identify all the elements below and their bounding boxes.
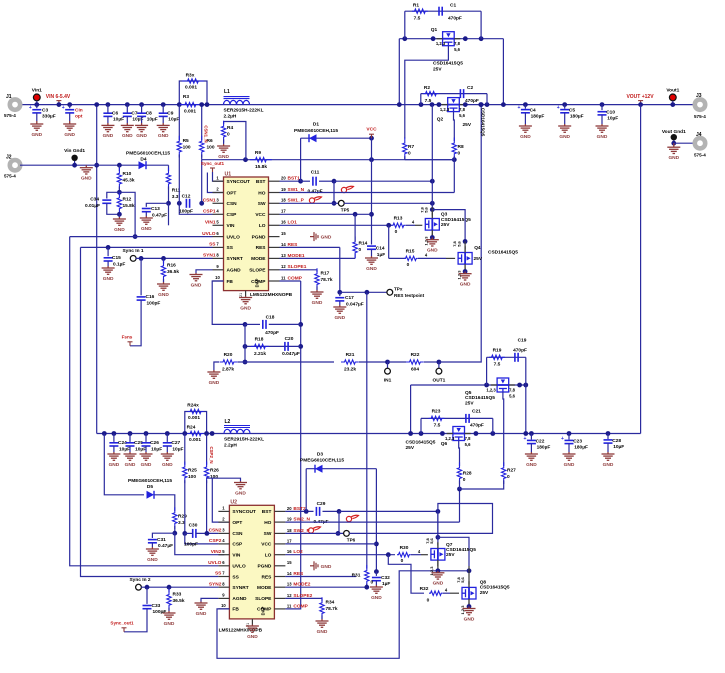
capacitor C5: [562, 102, 567, 107]
svg-text:SLOPE: SLOPE: [249, 268, 266, 274]
U2 DAP pin 21: [251, 619, 253, 625]
svg-text:C2: C2: [467, 85, 473, 91]
svg-text:1,2,3: 1,2,3: [440, 107, 450, 112]
capacitor C29: [316, 507, 319, 516]
svg-text:+: +: [29, 105, 32, 111]
svg-text:C22: C22: [536, 438, 545, 444]
svg-text:R18: R18: [255, 337, 264, 343]
svg-text:C29: C29: [317, 501, 326, 507]
U2 pin 20 BST: [274, 510, 285, 512]
svg-text:GND: GND: [235, 490, 246, 496]
svg-text:SYNRT: SYNRT: [227, 256, 243, 262]
svg-text:C30: C30: [189, 523, 198, 529]
svg-text:7.5: 7.5: [494, 362, 501, 368]
svg-text:10µF: 10µF: [151, 446, 162, 452]
inductor L1: [224, 100, 250, 104]
U1 pin 3 CSN: [213, 202, 224, 204]
ground for Q7: [431, 571, 444, 579]
svg-text:10µF: 10µF: [135, 446, 146, 452]
wire VCC vertical: [371, 138, 373, 244]
svg-text:20: 20: [287, 506, 292, 511]
svg-text:14: 14: [287, 571, 292, 576]
svg-text:+: +: [517, 105, 520, 111]
U2 pin 13 MODE: [274, 586, 285, 588]
resistor R1: [412, 9, 428, 13]
svg-text:GND: GND: [321, 235, 332, 241]
capacitor C30: [193, 529, 196, 538]
resistor R30: [397, 553, 411, 557]
svg-text:MODE: MODE: [251, 256, 266, 262]
capacitor C6: [106, 102, 111, 107]
svg-text:GND: GND: [312, 300, 323, 306]
wire MODE2 row: [285, 586, 366, 588]
svg-text:+: +: [561, 436, 564, 442]
svg-text:CSP: CSP: [227, 212, 238, 218]
svg-text:C9: C9: [167, 111, 173, 117]
test loop SW2_N: [346, 515, 358, 521]
ground for C17: [333, 305, 346, 313]
terminal IN1: [385, 360, 390, 365]
svg-text:GND: GND: [122, 133, 133, 139]
U1 pin 2 OPT: [213, 192, 224, 194]
connector J3: [695, 99, 705, 109]
svg-text:SYNCOUT: SYNCOUT: [227, 179, 251, 185]
wire FB divider to VOUT: [439, 105, 481, 362]
svg-text:25V: 25V: [433, 66, 442, 72]
ground for C31: [146, 547, 159, 555]
svg-text:VIN: VIN: [232, 553, 241, 559]
ground for C10: [596, 124, 609, 132]
svg-text:R2: R2: [424, 85, 430, 91]
svg-text:C27: C27: [171, 440, 180, 446]
svg-text:180µF: 180µF: [531, 114, 545, 120]
svg-text:R21: R21: [346, 352, 355, 358]
net label VCC2 row: [285, 543, 376, 545]
svg-text:3.3: 3.3: [172, 194, 179, 200]
capacitor C31: [152, 533, 174, 538]
wire SYNCOUT pin1: [213, 172, 224, 181]
ground for C22: [525, 452, 538, 460]
svg-text:7,8: 7,8: [425, 537, 430, 543]
wire Q1 row: [399, 38, 503, 40]
svg-text:1,2,3: 1,2,3: [424, 236, 429, 246]
svg-text:SER2915H-222KL: SER2915H-222KL: [224, 108, 264, 114]
wire R2 C2 snubber: [420, 94, 422, 105]
svg-text:21: 21: [239, 293, 243, 297]
svg-text:SW: SW: [264, 531, 272, 537]
resistor R20: [214, 362, 219, 370]
svg-text:100: 100: [188, 474, 196, 480]
ground for R17: [311, 290, 324, 298]
svg-text:VIN: VIN: [227, 223, 236, 229]
wire HO2 drive: [285, 521, 459, 523]
svg-text:C14: C14: [376, 246, 385, 252]
svg-text:GND: GND: [526, 462, 537, 468]
capacitor C27: [165, 431, 170, 436]
ground for C26: [140, 452, 153, 460]
svg-text:C3: C3: [42, 108, 48, 114]
ground for Q3: [426, 238, 439, 247]
svg-text:MODE: MODE: [257, 585, 272, 591]
U2 pin 2 OPT: [218, 521, 229, 523]
svg-text:575-4: 575-4: [4, 174, 16, 179]
svg-text:GND: GND: [125, 462, 136, 468]
transistor Q1: [443, 32, 455, 46]
U2 pin 5 VIN: [218, 554, 229, 556]
svg-text:100pF: 100pF: [153, 609, 167, 615]
svg-text:GND: GND: [371, 595, 382, 601]
wire VIN1 drop: [168, 203, 170, 225]
svg-text:OPT: OPT: [232, 520, 242, 526]
svg-text:15.8k: 15.8k: [255, 164, 267, 170]
svg-text:15.8k: 15.8k: [123, 203, 135, 209]
svg-text:CSD16415Q5: CSD16415Q5: [465, 395, 495, 401]
wire SS shared vertical: [81, 246, 213, 248]
svg-text:C28: C28: [612, 438, 621, 444]
svg-text:UVLO: UVLO: [227, 234, 241, 240]
ground for Q8: [463, 607, 476, 615]
wire SW boot: [334, 180, 432, 182]
svg-text:604: 604: [411, 367, 419, 373]
svg-text:GND: GND: [520, 134, 531, 140]
U2 pin 9 AGND: [218, 597, 229, 599]
svg-text:SYN1: SYN1: [203, 253, 216, 259]
svg-text:CSP: CSP: [232, 542, 243, 548]
ground for C14: [365, 256, 378, 264]
capacitor C9: [161, 102, 166, 107]
wire RES shared vertical: [366, 292, 368, 568]
svg-text:C26: C26: [150, 440, 159, 446]
svg-text:GND: GND: [321, 564, 332, 570]
svg-text:VCC: VCC: [366, 126, 377, 132]
ground for C24: [107, 452, 120, 460]
svg-text:Sync_out1: Sync_out1: [201, 161, 225, 166]
wire RES row: [280, 246, 340, 248]
U1 pin 10 FB: [213, 280, 224, 282]
wire COMP shared vertical: [280, 280, 301, 282]
wire Q2 gate: [453, 112, 456, 141]
svg-text:R24: R24: [187, 425, 196, 431]
ground for R16: [157, 282, 170, 290]
svg-text:36.5k: 36.5k: [173, 598, 185, 604]
svg-text:100: 100: [183, 145, 191, 151]
svg-text:7,8: 7,8: [459, 107, 465, 112]
wire VIN2 rail: [97, 433, 641, 435]
svg-text:R4: R4: [227, 125, 233, 131]
svg-text:SYNRT: SYNRT: [232, 585, 248, 591]
svg-text:GND: GND: [209, 380, 220, 386]
svg-text:Q3: Q3: [441, 212, 448, 218]
wire FB divider row: [245, 361, 334, 363]
U2 pin 11 COMP: [274, 608, 285, 610]
svg-text:GND: GND: [191, 282, 202, 288]
svg-text:RES testpoint: RES testpoint: [394, 293, 425, 298]
ground for C13: [140, 216, 153, 224]
wire RES2 row: [285, 576, 356, 578]
svg-text:C1: C1: [450, 3, 456, 9]
svg-text:C10: C10: [606, 110, 615, 116]
svg-text:PGND: PGND: [252, 234, 266, 240]
wire VCC2 vertical: [375, 469, 377, 572]
svg-text:J1: J1: [6, 94, 12, 100]
transistor Q4: [464, 241, 466, 249]
resistor R12: [117, 192, 121, 214]
svg-text:GND: GND: [141, 462, 152, 468]
svg-text:R23: R23: [432, 409, 441, 415]
U2 pin 19 HO: [274, 521, 285, 523]
svg-text:5,6: 5,6: [454, 47, 460, 52]
wire SW to Q3: [344, 202, 432, 204]
ground for C4: [519, 124, 532, 132]
svg-text:0: 0: [408, 151, 411, 157]
svg-text:RES: RES: [256, 245, 267, 251]
svg-text:Fsns: Fsns: [122, 334, 133, 339]
capacitor C21: [466, 414, 469, 423]
svg-text:R25: R25: [188, 468, 197, 474]
svg-text:R29: R29: [178, 514, 187, 520]
capacitor C2: [460, 89, 463, 98]
svg-text:C11: C11: [311, 170, 320, 176]
wire R5 leg CSP1: [178, 105, 180, 140]
ground for C5: [558, 124, 571, 132]
ground for R20: [207, 370, 220, 378]
resistor R29: [173, 507, 177, 529]
resistor R3: [180, 102, 202, 106]
terminal OUT1: [437, 360, 442, 365]
ground for C3: [30, 121, 43, 130]
ground at Vin Gnd1: [80, 165, 93, 174]
svg-text:Sync_out1: Sync_out1: [110, 620, 134, 625]
test loop SW1_N: [341, 186, 353, 192]
svg-text:25V: 25V: [474, 256, 483, 262]
capacitor C25: [128, 431, 133, 436]
capacitor C34: [107, 192, 120, 198]
svg-text:GND: GND: [81, 176, 92, 182]
wire R23 C21 snubber: [420, 418, 422, 433]
wire Q7 drain link: [438, 537, 469, 566]
svg-text:GND: GND: [668, 155, 679, 161]
svg-text:C32: C32: [381, 575, 390, 581]
wire VIN vertical to phase2: [96, 105, 98, 434]
svg-text:CSD16415Q5: CSD16415Q5: [446, 547, 476, 553]
wire Q1 gate: [405, 46, 449, 139]
svg-text:470pF: 470pF: [265, 330, 279, 336]
resistor R32: [429, 591, 443, 595]
svg-text:J2: J2: [6, 155, 12, 161]
U1 pin 18 SW: [269, 202, 280, 204]
U2 pin 1 SYNCOUT: [218, 510, 229, 512]
svg-text:C4: C4: [530, 108, 536, 114]
wire R7 R8 bottoms: [405, 159, 455, 161]
ground for R4: [217, 144, 230, 152]
svg-text:CSN2: CSN2: [209, 528, 222, 534]
capacitor C12: [186, 199, 189, 208]
ground for C28: [602, 452, 615, 460]
svg-text:25V: 25V: [406, 445, 415, 451]
svg-text:15: 15: [281, 231, 286, 236]
svg-text:Q5: Q5: [465, 390, 472, 396]
svg-text:7,8: 7,8: [452, 240, 457, 246]
svg-text:0.47µF: 0.47µF: [158, 543, 173, 549]
svg-text:GND: GND: [564, 462, 575, 468]
svg-text:7,8: 7,8: [454, 41, 460, 46]
resistor R11: [168, 165, 170, 171]
resistor R28: [457, 462, 461, 484]
svg-text:PMEG6010CEH,115: PMEG6010CEH,115: [128, 478, 172, 484]
svg-text:7.5: 7.5: [434, 423, 441, 429]
svg-text:10: 10: [215, 275, 220, 280]
wire Q6 gate: [458, 441, 461, 467]
svg-text:Vin Gnd1: Vin Gnd1: [64, 148, 85, 154]
svg-text:SYNCOUT: SYNCOUT: [232, 509, 256, 515]
wire D5 to R29: [155, 495, 175, 511]
diode D4: [139, 161, 147, 169]
svg-text:SS: SS: [232, 574, 239, 580]
svg-text:25V: 25V: [465, 400, 474, 406]
svg-text:C20: C20: [285, 336, 294, 342]
svg-text:0: 0: [463, 477, 466, 483]
U2 pin 16 LO: [274, 554, 285, 556]
svg-text:GND: GND: [427, 248, 438, 254]
resistor R9: [250, 158, 272, 162]
svg-text:17: 17: [281, 209, 286, 214]
svg-text:TPx: TPx: [394, 286, 403, 291]
svg-text:UVLO: UVLO: [232, 564, 246, 570]
capacitor C11: [301, 180, 310, 182]
capacitor C33: [146, 587, 148, 604]
svg-text:1µF: 1µF: [382, 581, 390, 587]
svg-text:0.1µF: 0.1µF: [113, 261, 125, 267]
wire CSP2 jog: [185, 533, 219, 544]
svg-text:GND: GND: [247, 634, 258, 640]
U1 pin 9 AGND: [213, 269, 224, 271]
svg-text:D4: D4: [140, 156, 146, 162]
svg-text:SS: SS: [209, 242, 216, 248]
U1 pin 13 MODE: [269, 257, 280, 259]
svg-text:0: 0: [407, 262, 410, 268]
resistor R7: [403, 138, 407, 160]
svg-text:J3: J3: [696, 93, 702, 99]
svg-text:COMP: COMP: [251, 279, 266, 285]
U1 DAP pin 21: [245, 291, 247, 296]
svg-text:0: 0: [458, 151, 461, 157]
svg-text:IN1: IN1: [384, 378, 392, 384]
svg-text:5,6: 5,6: [465, 442, 471, 447]
svg-text:C33: C33: [152, 603, 161, 609]
svg-text:AGND: AGND: [227, 268, 242, 274]
ground for R12: [118, 214, 120, 217]
svg-text:14: 14: [281, 242, 286, 247]
svg-text:Q8: Q8: [480, 580, 487, 586]
svg-text:0.47µF: 0.47µF: [307, 189, 322, 195]
svg-text:18: 18: [287, 528, 292, 533]
svg-text:18: 18: [281, 198, 286, 203]
capacitor C18: [245, 323, 260, 325]
svg-text:CSD16415Q5: CSD16415Q5: [480, 585, 510, 591]
svg-text:C19: C19: [518, 338, 527, 344]
net flag Fsns: [128, 342, 133, 346]
svg-text:GND: GND: [559, 134, 570, 140]
svg-text:TP6: TP6: [347, 537, 356, 542]
svg-text:CSD16415Q5: CSD16415Q5: [441, 217, 471, 223]
net flag VIN 6-5.4V: [56, 101, 61, 105]
svg-text:5,6: 5,6: [509, 393, 515, 398]
svg-text:CSD16415Q5: CSD16415Q5: [433, 61, 463, 67]
wire SW2 loop to Q7: [349, 504, 492, 538]
U1 pin 16 LO: [269, 224, 280, 226]
transistor Q2: [448, 98, 460, 112]
svg-text:R13: R13: [394, 216, 403, 222]
U2 pin 4 CSP: [218, 543, 229, 545]
net flag VOUT +12V: [638, 101, 643, 105]
U1 pin 12 SLOPE: [269, 269, 280, 271]
svg-text:C7: C7: [131, 111, 137, 117]
ground for C7: [121, 123, 134, 132]
svg-text:L1: L1: [224, 89, 230, 95]
svg-text:16: 16: [287, 549, 292, 554]
svg-text:25V: 25V: [480, 590, 489, 596]
svg-text:R9: R9: [255, 150, 261, 156]
svg-text:1,2,3: 1,2,3: [429, 566, 434, 576]
svg-text:12: 12: [281, 264, 286, 269]
svg-text:Q4: Q4: [474, 245, 481, 251]
diode D3: [305, 469, 307, 512]
resistor R24: [188, 431, 204, 435]
svg-text:0: 0: [395, 229, 398, 235]
svg-text:GND: GND: [103, 276, 114, 282]
ground for R33: [163, 611, 176, 619]
svg-text:11: 11: [281, 275, 286, 280]
wire BST1: [280, 180, 301, 182]
svg-text:GND: GND: [460, 282, 471, 288]
wire SW1 vertical to Q3: [431, 105, 433, 207]
svg-text:7.5: 7.5: [414, 15, 421, 21]
ground for U1 DAP: [239, 296, 252, 304]
svg-text:7,8: 7,8: [456, 576, 461, 582]
resistor R27: [502, 462, 506, 484]
svg-text:Sync In 2: Sync In 2: [129, 577, 150, 583]
svg-text:BST: BST: [262, 509, 272, 515]
svg-text:GND: GND: [109, 462, 120, 468]
svg-text:RES: RES: [262, 574, 273, 580]
svg-text:17: 17: [287, 538, 292, 543]
svg-text:C17: C17: [345, 295, 354, 301]
capacitor Cin opt: [67, 102, 72, 107]
svg-text:AGND: AGND: [232, 596, 247, 602]
wire BST2 to Q7: [339, 510, 438, 512]
svg-text:10µF: 10µF: [613, 444, 624, 450]
svg-text:VCC: VCC: [255, 212, 266, 218]
resistor R26: [206, 434, 208, 465]
svg-text:R7: R7: [408, 144, 414, 150]
svg-text:Vin1: Vin1: [32, 88, 42, 94]
ground for R26: [234, 481, 247, 489]
svg-text:R20: R20: [224, 352, 233, 358]
svg-text:1µF: 1µF: [377, 252, 385, 258]
svg-text:R30: R30: [400, 545, 409, 551]
diode D1: [300, 138, 302, 181]
connector J2: [10, 160, 20, 170]
svg-text:FB: FB: [232, 607, 239, 613]
U2 pin 6 UVLO: [218, 565, 229, 567]
resistor R23: [429, 416, 445, 420]
wire VCC row R9: [201, 160, 203, 204]
wire VOUT drop Q5: [525, 385, 527, 434]
wire RES testpoint row: [340, 291, 387, 293]
resistor R6: [201, 105, 203, 140]
wire J2 row: [20, 164, 169, 166]
wire LO2 row: [285, 554, 395, 556]
